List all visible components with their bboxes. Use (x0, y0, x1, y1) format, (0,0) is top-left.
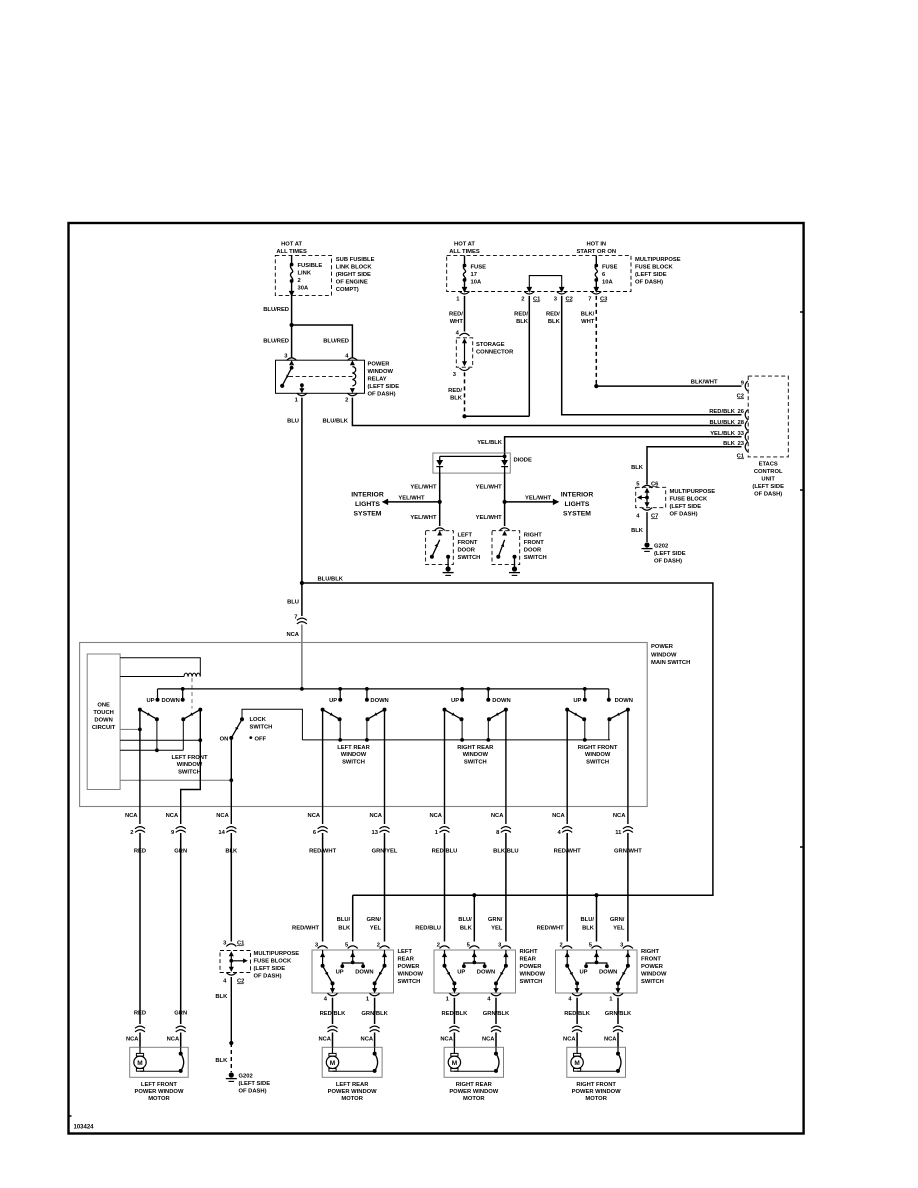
svg-text:RED: RED (134, 849, 146, 855)
wire BLU/BLK relay pin 2 to ETACS pin 28 (352, 398, 741, 426)
svg-text:BLU/: BLU/ (580, 917, 594, 923)
svg-text:SWITCH: SWITCH (524, 555, 547, 561)
motor M (right rear power window motor) (453, 1047, 455, 1053)
svg-text:14: 14 (218, 830, 225, 836)
svg-text:2: 2 (345, 398, 348, 404)
junction node BLU/RED (290, 323, 294, 327)
junction node bus / right front drop (594, 893, 598, 897)
svg-text:SWITCH: SWITCH (342, 760, 365, 766)
svg-text:GRN/: GRN/ (610, 917, 625, 923)
svg-text:M: M (137, 1060, 142, 1067)
motor return contact (left rear power window motor) (374, 1047, 376, 1053)
junction node RED/BLK (462, 414, 466, 418)
svg-text:RELAY: RELAY (368, 377, 387, 383)
svg-text:RED/: RED/ (514, 312, 528, 318)
svg-text:CONNECTOR: CONNECTOR (476, 350, 514, 356)
svg-text:BLU/: BLU/ (337, 917, 351, 923)
svg-text:LEFT: LEFT (398, 949, 413, 955)
wire pin 7 feed inside main switch (301, 625, 303, 689)
storage connector internal wire (462, 338, 467, 343)
left front down pivot leg to pin 9 (181, 710, 201, 824)
svg-text:DOWN: DOWN (615, 698, 633, 704)
svg-text:RED/BLK: RED/BLK (442, 1011, 469, 1017)
svg-text:FRONT: FRONT (524, 540, 544, 546)
ETACS control unit (dashed box) (748, 376, 788, 457)
svg-text:SWITCH: SWITCH (178, 770, 201, 776)
motor return contact (right rear power window motor) (495, 1047, 497, 1053)
svg-text:BLK: BLK (460, 925, 473, 931)
wire BLK/WHT to ETACS pin 9 (596, 385, 741, 387)
fuse block pin 2 C1 (524, 292, 534, 295)
svg-text:UNIT: UNIT (761, 477, 775, 483)
svg-text:INTERIOR: INTERIOR (561, 492, 594, 499)
one touch coil wiring (120, 658, 200, 677)
svg-text:WINDOW: WINDOW (651, 653, 677, 659)
svg-text:RED/BLK: RED/BLK (320, 1011, 347, 1017)
svg-text:GRN/BLK: GRN/BLK (605, 1011, 632, 1017)
wire GRN/BLK left rear switch to motor (374, 998, 376, 1024)
svg-text:POWER: POWER (651, 644, 674, 650)
svg-text:RED/BLK: RED/BLK (564, 1011, 591, 1017)
wire BLK/WHT fuse pin 7 C3 down (dashed) (595, 296, 597, 386)
wire RED/WHT pin 4 to right front switch pin 2 (566, 880, 568, 942)
right rear switch left contact and arm (444, 950, 446, 966)
svg-text:NCA: NCA (429, 813, 442, 819)
motor return contact (left front power window motor) (180, 1047, 182, 1053)
wire YEL/WHT right diode to junction (504, 473, 506, 502)
svg-text:DOOR: DOOR (524, 548, 542, 554)
svg-text:BLU/: BLU/ (458, 917, 472, 923)
wire RED/BLK left rear switch to motor (332, 998, 334, 1024)
inline connectors NCA (right rear power window motor) (449, 1026, 459, 1028)
motor M (left rear power window motor) (332, 1047, 334, 1053)
svg-text:11: 11 (615, 830, 622, 836)
wire BLK pin 14 down (230, 880, 232, 942)
svg-text:UP: UP (146, 698, 154, 704)
svg-text:DOWN: DOWN (370, 698, 388, 704)
left rear power window switch box (312, 950, 394, 993)
svg-text:YEL/BLK: YEL/BLK (710, 431, 736, 437)
svg-text:DOWN: DOWN (94, 718, 112, 724)
diode internal feed wire (504, 453, 506, 460)
right front door switch connector (500, 528, 510, 531)
left rear moving contact legs to bus (339, 719, 341, 740)
svg-text:BLU/RED: BLU/RED (263, 339, 289, 345)
wire RED/BLK fuse pin 3 C2 to ETACS pin 26 (562, 296, 742, 415)
right front switch right contact and arm (627, 950, 629, 966)
svg-text:BLK/BLU: BLK/BLU (493, 849, 518, 855)
svg-text:(LEFT SIDE: (LEFT SIDE (239, 1081, 271, 1087)
wire YEL/WHT to right front door switch (504, 502, 506, 526)
one touch down coil (184, 673, 200, 676)
svg-text:OF DASH): OF DASH) (670, 512, 698, 518)
svg-text:GRN/: GRN/ (367, 917, 382, 923)
svg-text:RED/BLU: RED/BLU (432, 849, 458, 855)
lock switch leg to pin 14 (230, 738, 232, 824)
svg-text:(LEFT SIDE: (LEFT SIDE (254, 966, 286, 972)
wire GRN/WHT pin 11 to right front switch pin 3 (627, 880, 629, 942)
svg-text:WHT: WHT (450, 319, 464, 325)
motor M (left front power window motor) (139, 1047, 141, 1053)
svg-text:POWER: POWER (641, 964, 664, 970)
right rear power window switch box (434, 950, 516, 993)
wire BLU relay pin 1 down (301, 398, 303, 583)
diode right (501, 460, 508, 466)
svg-text:NCA: NCA (166, 813, 179, 819)
svg-text:LIGHTS: LIGHTS (565, 501, 590, 508)
svg-text:HOT AT: HOT AT (281, 242, 302, 248)
fuse block pin 1 (460, 292, 470, 295)
svg-text:RIGHT FRONT: RIGHT FRONT (576, 1082, 616, 1088)
bus drop to right front switch pin 5 (596, 895, 598, 941)
svg-text:RED/WHT: RED/WHT (309, 849, 337, 855)
svg-text:RIGHT: RIGHT (524, 533, 542, 539)
svg-text:26: 26 (738, 409, 745, 415)
svg-text:WINDOW: WINDOW (641, 972, 667, 978)
right rear pivot legs to pins 1 8 (444, 710, 446, 824)
fuse block pin 3 C2 (557, 292, 567, 295)
svg-text:SWITCH: SWITCH (398, 979, 421, 985)
multipurpose fuse block (dashed box) (447, 255, 631, 291)
right rear switch right contact and arm (505, 950, 507, 966)
svg-text:30A: 30A (298, 286, 309, 292)
left front moving contact legs (156, 719, 158, 750)
svg-text:BLK: BLK (516, 319, 529, 325)
svg-text:NCA: NCA (440, 1037, 453, 1043)
wire RED/BLK right rear switch to motor (453, 998, 455, 1024)
wire RED/BLU pin 1 to right rear switch pin 2 (444, 880, 446, 942)
svg-text:WINDOW: WINDOW (585, 752, 611, 758)
svg-text:BLK: BLK (215, 1058, 228, 1064)
svg-text:(LEFT SIDE: (LEFT SIDE (752, 484, 784, 490)
wire one touch to pivot bus (120, 739, 200, 741)
svg-text:POWER WINDOW: POWER WINDOW (572, 1089, 621, 1095)
svg-text:BLK: BLK (450, 396, 463, 402)
svg-text:33: 33 (738, 431, 745, 437)
svg-text:WINDOW: WINDOW (463, 752, 489, 758)
svg-text:CONTROL: CONTROL (754, 469, 783, 475)
svg-text:COMPT): COMPT) (336, 287, 359, 293)
fusible link 2 30A (291, 255, 293, 264)
fuse block pin 7 C3 (591, 292, 601, 295)
multipurpose fuse block right (dashed box) (636, 487, 666, 507)
svg-text:POWER: POWER (398, 964, 421, 970)
left front door switch (dashed box) (426, 531, 454, 565)
svg-text:CIRCUIT: CIRCUIT (92, 725, 116, 731)
inline connectors NCA (left rear power window motor) (328, 1026, 338, 1028)
svg-text:NCA: NCA (491, 813, 504, 819)
svg-text:(LEFT SIDE: (LEFT SIDE (654, 551, 686, 557)
svg-text:REAR: REAR (398, 956, 415, 962)
svg-text:RED/WHT: RED/WHT (537, 925, 565, 931)
svg-text:10A: 10A (471, 280, 482, 286)
svg-text:GRN/BLK: GRN/BLK (361, 1011, 388, 1017)
svg-text:NCA: NCA (216, 813, 229, 819)
relay coil (350, 360, 355, 365)
svg-text:RED/: RED/ (448, 388, 462, 394)
right front switch UP contact (583, 687, 587, 691)
svg-text:WINDOW: WINDOW (177, 762, 203, 768)
svg-text:START OR ON: START OR ON (577, 249, 617, 255)
svg-text:LEFT REAR: LEFT REAR (336, 1082, 369, 1088)
svg-text:FUSE BLOCK: FUSE BLOCK (254, 959, 292, 965)
fuse 17 10A (464, 255, 466, 265)
svg-text:YEL/WHT: YEL/WHT (398, 496, 425, 502)
svg-text:MOTOR: MOTOR (585, 1096, 607, 1102)
svg-text:17: 17 (471, 272, 477, 278)
right front switch left contact and arm (566, 950, 568, 966)
ground G202 (left side of dash, lower) (229, 1072, 234, 1077)
svg-text:BLU/BLK: BLU/BLK (318, 577, 344, 583)
svg-text:SWITCH: SWITCH (458, 555, 481, 561)
svg-text:LEFT FRONT: LEFT FRONT (171, 755, 208, 761)
right rear switch DOWN arm (504, 708, 508, 712)
right front door switch (dashed box) (492, 531, 520, 565)
left front switch UP arm (138, 708, 142, 712)
svg-text:FUSIBLE: FUSIBLE (298, 263, 323, 269)
svg-text:RED/BLK: RED/BLK (709, 409, 736, 415)
svg-text:NCA: NCA (361, 1037, 374, 1043)
svg-text:YEL/WHT: YEL/WHT (476, 515, 503, 521)
svg-text:DOOR: DOOR (458, 548, 476, 554)
svg-text:RED: RED (134, 1011, 146, 1017)
svg-text:POWER WINDOW: POWER WINDOW (449, 1089, 498, 1095)
svg-text:SWITCH: SWITCH (250, 724, 273, 730)
relay switch contact (289, 360, 294, 365)
svg-text:BLK/: BLK/ (581, 312, 595, 318)
right rear switch center common (473, 950, 475, 962)
left front door switch contact (437, 531, 442, 536)
left rear switch UP arm (321, 708, 325, 712)
svg-text:DOWN: DOWN (599, 970, 617, 976)
svg-text:RIGHT: RIGHT (641, 949, 659, 955)
svg-text:NCA: NCA (167, 1037, 180, 1043)
svg-text:LEFT: LEFT (458, 533, 473, 539)
svg-text:UP: UP (329, 698, 337, 704)
svg-text:MULTIPURPOSE: MULTIPURPOSE (670, 489, 716, 495)
right front switch UP arm (565, 708, 569, 712)
svg-text:ALL TIMES: ALL TIMES (276, 249, 307, 255)
svg-text:STORAGE: STORAGE (476, 342, 505, 348)
arrow to interior lights system (right) (505, 501, 553, 503)
svg-text:RIGHT FRONT: RIGHT FRONT (578, 745, 618, 751)
wire RED/BLK junction to fuse pin 2 C1 (465, 415, 530, 417)
sub fusible link block (dashed box) (275, 255, 331, 295)
left front switch UP contact (157, 689, 159, 700)
svg-text:LINK BLOCK: LINK BLOCK (336, 265, 373, 271)
svg-text:LINK: LINK (298, 271, 312, 277)
svg-text:RED/: RED/ (546, 312, 560, 318)
junction node left YEL/WHT (438, 500, 442, 504)
svg-text:WHT: WHT (581, 319, 595, 325)
motor return contact (right front power window motor) (617, 1047, 619, 1053)
wire BLK to junction (230, 977, 232, 1043)
left rear switch left contact and arm (322, 950, 324, 966)
svg-text:G202: G202 (654, 544, 668, 550)
wire RED/WHT pin 6 to left rear switch pin 3 (322, 880, 324, 942)
left rear switch right contact and arm (384, 950, 386, 966)
svg-text:NCA: NCA (552, 813, 565, 819)
right rear switch UP arm (443, 708, 447, 712)
svg-text:FUSE BLOCK: FUSE BLOCK (670, 497, 708, 503)
svg-text:DOWN: DOWN (492, 698, 510, 704)
svg-text:RED/: RED/ (449, 312, 463, 318)
ground (left front door switch) (446, 566, 451, 571)
svg-text:POWER: POWER (520, 964, 543, 970)
svg-text:MOTOR: MOTOR (148, 1096, 170, 1102)
left rear switch DOWN contact (365, 687, 369, 691)
left front switch DOWN contact (181, 687, 185, 691)
junction node bus / right rear drop (472, 893, 476, 897)
svg-text:DOWN: DOWN (355, 970, 373, 976)
right front switch DOWN arm (626, 708, 630, 712)
svg-text:SWITCH: SWITCH (464, 760, 487, 766)
wire RED/BLK right front switch to motor (576, 998, 578, 1024)
pivot feed bus from lock switch (302, 739, 610, 741)
bus drop to right rear switch pin 5 (473, 895, 475, 941)
svg-text:M: M (574, 1060, 579, 1067)
left rear pivot legs to pins 6 13 (322, 710, 324, 824)
storage connector (dashed box) (456, 338, 472, 367)
right front door switch contact (502, 531, 507, 536)
diode box (433, 453, 510, 473)
wire RED/BLK storage connector down (dashed) (464, 372, 466, 416)
svg-text:103424: 103424 (74, 1125, 95, 1131)
svg-text:POWER WINDOW: POWER WINDOW (328, 1089, 377, 1095)
svg-text:BLK: BLK (631, 528, 644, 534)
wire one touch to left front up pivot (120, 728, 140, 730)
svg-text:BLK/WHT: BLK/WHT (691, 380, 718, 386)
svg-text:UP: UP (451, 698, 459, 704)
svg-text:NCA: NCA (482, 1037, 495, 1043)
svg-text:BLU/RED: BLU/RED (263, 307, 289, 313)
fuse block pin 4 C2 (BLK column) (226, 973, 236, 976)
right front power window switch box (556, 950, 638, 993)
svg-text:YEL: YEL (370, 925, 382, 931)
left rear switch center common (352, 950, 354, 962)
svg-text:NCA: NCA (369, 813, 382, 819)
wire BLK ETACS pin 23 to fuse block C6 (647, 447, 742, 485)
svg-text:BLU/RED: BLU/RED (323, 339, 349, 345)
inline connectors NCA (left front power window motor) (135, 1026, 145, 1028)
wire YEL/WHT to left front door switch (439, 502, 441, 526)
wire BLK dashed to ground G202 (230, 1043, 232, 1072)
svg-text:FUSE: FUSE (602, 265, 618, 271)
wire BLU/BLK long loop to rear switch bus (302, 583, 713, 895)
svg-text:RED/BLU: RED/BLU (415, 925, 441, 931)
arrow to interior lights system (left) (388, 501, 440, 503)
diode left (436, 460, 443, 466)
ground (right front door switch) (512, 566, 517, 571)
svg-text:INTERIOR: INTERIOR (351, 492, 384, 499)
multipurpose fuse block lower (dashed box) (220, 951, 251, 973)
svg-text:ETACS: ETACS (759, 462, 778, 468)
power window relay box (276, 360, 365, 393)
wire BLU/RED branch to relay pin 4 (292, 325, 353, 358)
svg-text:M: M (452, 1060, 457, 1067)
svg-text:LOCK: LOCK (250, 717, 267, 723)
svg-text:WINDOW: WINDOW (520, 972, 546, 978)
svg-text:GRN/YEL: GRN/YEL (372, 849, 398, 855)
right front moving contact legs to bus (584, 719, 586, 740)
left front up pivot leg to pin 2 (139, 710, 141, 824)
svg-text:(LEFT SIDE: (LEFT SIDE (635, 272, 667, 278)
ground G202 (left side of dash) (644, 542, 649, 547)
svg-text:MOTOR: MOTOR (463, 1096, 485, 1102)
wire BLK/BLU pin 8 to right rear switch pin 3 (505, 880, 507, 942)
svg-text:MULTIPURPOSE: MULTIPURPOSE (254, 951, 300, 957)
svg-text:NCA: NCA (613, 813, 626, 819)
svg-text:FUSE BLOCK: FUSE BLOCK (635, 265, 673, 271)
svg-text:BLK: BLK (215, 994, 228, 1000)
multipurpose fuse block pin 4 C7 (642, 508, 652, 511)
svg-text:YEL: YEL (491, 925, 503, 931)
svg-text:UP: UP (336, 970, 344, 976)
svg-text:OF DASH): OF DASH) (254, 974, 282, 980)
svg-text:WINDOW: WINDOW (368, 369, 394, 375)
svg-text:RED/WHT: RED/WHT (292, 925, 320, 931)
svg-text:BLU/BLK: BLU/BLK (323, 419, 349, 425)
fuse block internal jumper to pins 2 and 3 (529, 276, 561, 288)
svg-text:M: M (330, 1060, 335, 1067)
svg-text:(RIGHT SIDE: (RIGHT SIDE (336, 272, 371, 278)
fuse block lower internal wire (229, 951, 234, 956)
svg-text:NCA: NCA (286, 632, 299, 638)
wire BLU main switch pin 7 feed (301, 583, 303, 616)
svg-text:RED/WHT: RED/WHT (554, 849, 582, 855)
svg-text:GRN/: GRN/ (488, 917, 503, 923)
right rear switch UP contact (460, 687, 464, 691)
svg-text:YEL/WHT: YEL/WHT (410, 485, 437, 491)
lock switch (240, 717, 244, 721)
left front power window motor box (130, 1047, 189, 1077)
svg-text:OF DASH): OF DASH) (635, 280, 663, 286)
junction node BLU to BLU/BLK bus (300, 581, 304, 585)
svg-text:7: 7 (588, 297, 591, 303)
svg-text:UP: UP (579, 970, 587, 976)
svg-text:UP: UP (457, 970, 465, 976)
fuse block right internal wire (644, 488, 649, 493)
svg-text:FRONT: FRONT (641, 956, 661, 962)
svg-text:WINDOW: WINDOW (398, 972, 424, 978)
svg-text:YEL: YEL (613, 925, 625, 931)
svg-text:10A: 10A (602, 280, 613, 286)
left rear switch UP contact (338, 687, 342, 691)
svg-text:SWITCH: SWITCH (586, 760, 609, 766)
svg-text:OF DASH): OF DASH) (754, 492, 782, 498)
svg-text:RIGHT REAR: RIGHT REAR (457, 745, 494, 751)
svg-text:BLK: BLK (225, 849, 238, 855)
svg-text:YEL/WHT: YEL/WHT (525, 496, 552, 502)
svg-text:OF DASH): OF DASH) (654, 559, 682, 565)
left rear power window motor box (322, 1047, 382, 1077)
svg-text:WINDOW: WINDOW (341, 752, 367, 758)
svg-text:(LEFT SIDE: (LEFT SIDE (368, 384, 400, 390)
svg-text:SWITCH: SWITCH (520, 979, 543, 985)
svg-text:NCA: NCA (563, 1037, 576, 1043)
svg-text:BLK: BLK (548, 319, 561, 325)
svg-text:OF ENGINE: OF ENGINE (336, 280, 368, 286)
svg-text:HOT IN: HOT IN (586, 242, 606, 248)
svg-text:GRN: GRN (174, 849, 187, 855)
svg-text:LIGHTS: LIGHTS (355, 501, 380, 508)
svg-text:GRN/WHT: GRN/WHT (614, 849, 642, 855)
svg-text:BLU: BLU (287, 600, 299, 606)
left rear switch DOWN arm (383, 708, 387, 712)
svg-text:OFF: OFF (255, 737, 267, 743)
svg-text:GRN/BLK: GRN/BLK (483, 1011, 510, 1017)
relay pin 1 (300, 383, 304, 387)
